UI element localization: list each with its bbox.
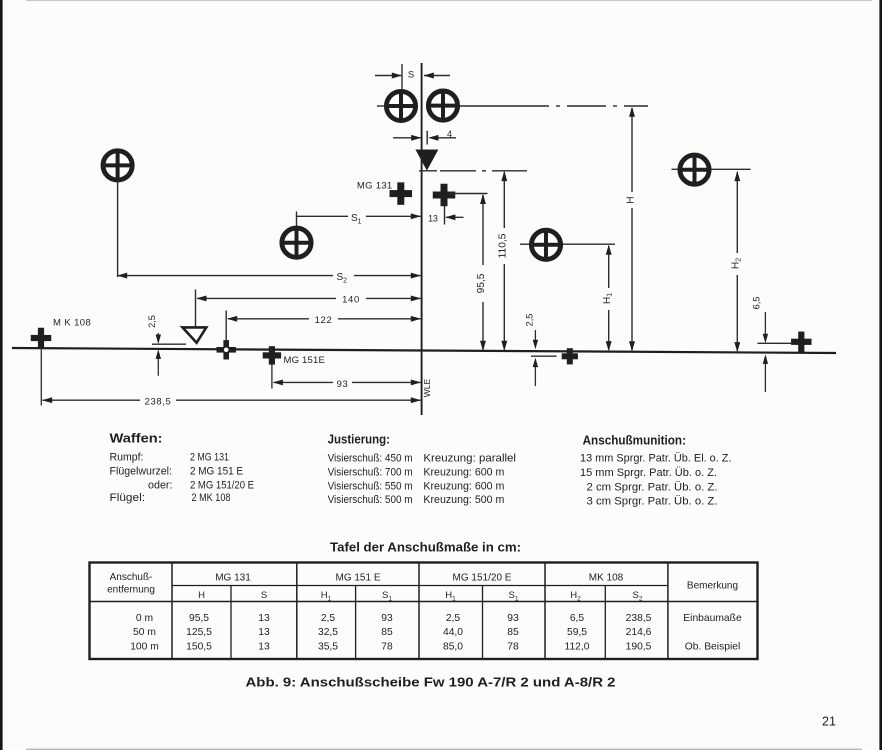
svg-text:Waffen:: Waffen: [110,431,163,446]
page bottom faint edge [26,749,862,750]
S dimension right arrow [424,75,450,77]
svg-text:100 m: 100 m [130,641,159,652]
wing gun cross below baseline (right) [562,348,578,364]
MK108 tick down to 238,5 line [40,347,42,406]
open triangle sight mark [183,327,207,342]
svg-text:238,5: 238,5 [145,396,172,407]
right 2,5 upper arrow [534,330,536,342]
svg-text:H: H [198,590,205,601]
H1 dimension line [606,245,612,352]
svg-text:Flügel:: Flügel: [110,492,146,504]
svg-text:S1: S1 [351,213,362,226]
sight triangle (solid) [415,150,438,171]
svg-text:Bemerkung: Bemerkung [687,581,738,592]
table header texts [107,572,738,596]
svg-text:H1: H1 [321,590,332,603]
svg-text:MG 151E: MG 151E [284,355,326,366]
6,5 upper arrow [764,312,766,336]
140 dimension tick [195,290,197,327]
4 dimension tick [426,131,428,145]
main vertical line (Waffenlinie) [421,63,423,415]
110,5 dimension line [501,171,507,351]
svg-text:Anschuß-: Anschuß- [110,572,153,583]
MG151E tick down to 93 line [271,365,273,389]
svg-text:95,5: 95,5 [189,613,209,624]
S1 dimension tick over left-middle circle [296,212,298,228]
svg-text:13 mm Sprgr. Patr. Üb. El. o.: 13 mm Sprgr. Patr. Üb. El. o. Z. [580,453,732,465]
svg-text:MG 131: MG 131 [357,181,393,192]
svg-text:Kreuzung: 500 m: Kreuzung: 500 m [423,494,504,506]
svg-text:59,5: 59,5 [567,627,587,638]
svg-text:Rumpf:: Rumpf: [110,452,144,464]
svg-text:Abb. 9: Anschußscheibe Fw 190: Abb. 9: Anschußscheibe Fw 190 A-7/R 2 un… [246,674,616,689]
table data rows [130,613,742,653]
table sub header texts [198,590,643,603]
93 dimension line [273,379,421,385]
140 dimension line [196,295,421,301]
Justierung list [328,453,516,507]
svg-text:Einbaumaße: Einbaumaße [683,613,742,624]
svg-text:140: 140 [342,295,360,306]
svg-text:125,5: 125,5 [186,627,212,638]
svg-text:MG 151 E: MG 151 E [335,572,380,583]
svg-text:6,5: 6,5 [752,297,762,310]
right 2,5 reference line [531,355,557,357]
svg-text:13: 13 [258,641,270,652]
122 dimension tick [225,311,227,342]
svg-text:2,5: 2,5 [525,314,535,327]
svg-text:Kreuzung: parallel: Kreuzung: parallel [423,453,516,465]
aim circle left middle [282,228,311,257]
upper dash-dot sight line [377,105,648,107]
122 dimension line [227,316,421,322]
svg-text:Visierschuß: 700 m: Visierschuß: 700 m [328,467,413,479]
svg-text:2 MG 131: 2 MG 131 [190,452,229,464]
svg-text:Visierschuß: 550 m: Visierschuß: 550 m [328,481,413,493]
svg-text:S: S [261,590,267,601]
svg-text:Tafel der Anschußmaße in cm:: Tafel der Anschußmaße in cm: [330,540,521,555]
13 dimension arrow [445,214,463,220]
svg-text:2,5: 2,5 [147,315,157,328]
svg-text:85: 85 [381,627,393,638]
table outer border [90,563,758,660]
left 2,5 reference line [152,343,186,345]
aim circle right middle [520,243,615,245]
4 dimension left arrow [393,137,421,139]
svg-text:150,5: 150,5 [186,641,212,652]
H2 dimension line [734,171,740,352]
svg-text:93: 93 [337,379,349,390]
svg-text:50 m: 50 m [133,627,156,638]
4 dimension right arrow [430,137,456,139]
svg-text:85,0: 85,0 [443,641,463,652]
svg-text:238,5: 238,5 [626,613,652,624]
svg-text:122: 122 [315,315,333,326]
svg-text:MK 108: MK 108 [589,572,624,583]
svg-text:2 MG 151 E: 2 MG 151 E [190,466,243,478]
svg-text:13: 13 [428,214,438,224]
svg-text:110,5: 110,5 [497,233,508,258]
svg-text:93: 93 [381,613,393,624]
svg-text:S1: S1 [509,590,519,603]
svg-text:190,5: 190,5 [626,641,652,652]
svg-text:214,6: 214,6 [626,627,652,638]
svg-text:2,5: 2,5 [321,613,336,624]
svg-text:78: 78 [507,641,519,652]
svg-text:oder:: oder: [148,480,173,492]
MG 151E cross [263,346,281,364]
S1 dimension line with right arrow [297,213,422,219]
svg-text:3 cm Sprgr. Patr. Üb. o. Z.: 3 cm Sprgr. Patr. Üb. o. Z. [587,495,718,507]
svg-text:S: S [408,70,414,81]
svg-text:Flügelwurzel:: Flügelwurzel: [110,466,173,478]
MG131 cross right [433,184,456,207]
svg-text:MG 131: MG 131 [215,572,251,583]
right 2,5 lower arrow [534,363,536,386]
svg-text:44,0: 44,0 [443,627,463,638]
svg-text:S2: S2 [633,590,643,603]
6,5 lower arrow [764,360,766,392]
svg-text:21: 21 [822,714,836,728]
svg-text:Visierschuß: 450 m: Visierschuß: 450 m [328,453,413,465]
S2 dimension line [117,273,421,279]
aim circle top left [386,91,415,120]
svg-text:Anschußmunition:: Anschußmunition: [583,433,686,448]
reference line from MG131 right cross [449,193,488,195]
13 dimension tick under MG131 right cross [444,205,446,225]
svg-text:95,5: 95,5 [476,273,487,293]
left 2,5 upper arrow [157,333,159,338]
left 2,5 lower arrow [157,353,159,376]
svg-text:MG 151/20 E: MG 151/20 E [453,572,512,583]
svg-text:0 m: 0 m [136,613,153,624]
svg-text:78: 78 [381,641,393,652]
Waffen list [110,452,255,505]
svg-text:32,5: 32,5 [318,627,338,638]
svg-text:2,5: 2,5 [446,613,461,624]
Anschussmunition list [580,453,732,508]
S dimension left arrow [375,75,401,77]
small cross with circle (MG151 wing root mark) [217,340,236,359]
svg-text:15 mm Sprgr. Patr. Üb. o. Z.: 15 mm Sprgr. Patr. Üb. o. Z. [580,467,717,479]
svg-text:Kreuzung: 600 m: Kreuzung: 600 m [423,467,504,479]
svg-text:H2: H2 [570,590,581,603]
lower dash-dot line at triangle apex [419,170,527,172]
aim circle far left [103,151,132,180]
table main column lines [172,563,668,660]
svg-text:2 cm Sprgr. Patr. Üb. o. Z.: 2 cm Sprgr. Patr. Üb. o. Z. [587,481,718,493]
svg-text:H: H [625,196,636,203]
svg-text:WLE: WLE [422,378,432,397]
svg-text:S1: S1 [382,590,392,603]
svg-text:Ob. Beispiel: Ob. Beispiel [685,641,741,652]
svg-text:H1: H1 [602,293,614,304]
svg-text:Visierschuß: 500 m: Visierschuß: 500 m [328,494,413,506]
page right edge [879,0,882,750]
svg-text:35,5: 35,5 [318,641,338,652]
svg-text:6,5: 6,5 [570,613,585,624]
page left edge [0,0,3,750]
svg-text:Kreuzung: 600 m: Kreuzung: 600 m [423,481,504,493]
svg-text:13: 13 [258,613,270,624]
table header bottom line [90,601,758,603]
aim circle top right [428,91,457,120]
svg-text:Justierung:: Justierung: [328,432,390,447]
page top faint edge [26,0,872,1]
MG131 cross left [390,182,413,205]
238,5 dimension line [42,397,421,403]
95,5 dimension line [480,194,486,351]
svg-text:4: 4 [447,129,452,139]
aim circle far right [672,168,751,170]
svg-text:2 MG 151/20 E: 2 MG 151/20 E [190,480,254,492]
svg-text:93: 93 [507,613,519,624]
MK108 cross right [791,332,812,353]
svg-text:entfernung: entfernung [107,584,155,595]
svg-text:S2: S2 [337,272,348,285]
table sub column lines [231,586,605,660]
H dimension line [629,107,635,352]
6,5 reference line [758,342,792,344]
svg-text:13: 13 [258,627,270,638]
svg-text:M K 108: M K 108 [53,318,91,329]
svg-text:H1: H1 [445,590,456,603]
svg-text:2 MK 108: 2 MK 108 [192,492,231,504]
svg-text:112,0: 112,0 [564,641,589,652]
S dimension tick [401,64,403,89]
svg-text:85: 85 [507,627,519,638]
baseline horizontal reference line [12,348,836,353]
MK108 cross left [31,328,52,349]
svg-text:H2: H2 [730,258,742,269]
table sub-header line [172,585,668,587]
